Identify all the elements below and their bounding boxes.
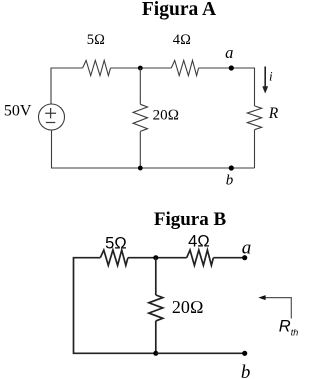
wire 5ohm to junction and to 4ohm bbox=[111, 67, 172, 69]
wire 20ohm bottom lead bbox=[139, 131, 141, 168]
wire 5ohm to junction to 4ohm bbox=[128, 257, 187, 259]
node junction dot top Figura B bbox=[153, 255, 158, 260]
resistor 20ohm Figura B bbox=[149, 295, 163, 321]
svg-text:b: b bbox=[226, 172, 234, 188]
svg-text:20Ω: 20Ω bbox=[172, 297, 204, 317]
wire R bottom lead bbox=[254, 130, 256, 168]
node junction dot bottom of 20ohm bbox=[138, 166, 143, 171]
resistor 4ohm Figura B bbox=[187, 250, 214, 265]
node junction dot bottom Figura B bbox=[153, 351, 158, 356]
svg-text:50V: 50V bbox=[4, 103, 32, 120]
svg-text:a: a bbox=[242, 238, 252, 259]
Rth arrow bbox=[265, 298, 292, 319]
wire top-left: source top to 5-ohm resistor bbox=[51, 68, 83, 104]
svg-text:R: R bbox=[268, 105, 279, 122]
voltage source 50V bbox=[39, 104, 65, 130]
wire left loop Figura B bbox=[74, 258, 156, 354]
svg-text:i: i bbox=[269, 68, 273, 83]
svg-text:5Ω: 5Ω bbox=[105, 235, 127, 253]
wire bottom to terminal b Figura B bbox=[156, 352, 245, 354]
terminal a Figura B bbox=[242, 255, 247, 260]
svg-text:a: a bbox=[225, 43, 233, 62]
resistor 5ohm Figura B bbox=[100, 250, 128, 265]
svg-text:20Ω: 20Ω bbox=[153, 108, 180, 124]
wire 4ohm to node a to top-right corner bbox=[199, 68, 255, 106]
svg-text:4Ω: 4Ω bbox=[173, 32, 191, 48]
node b Figura A bbox=[229, 165, 234, 170]
svg-text:Figura A: Figura A bbox=[142, 0, 216, 20]
resistor R Figura A bbox=[247, 106, 261, 130]
node a Figura A bbox=[229, 65, 234, 70]
svg-text:Rth: Rth bbox=[279, 317, 298, 337]
svg-text:5Ω: 5Ω bbox=[87, 32, 105, 48]
wire 20ohm top lead bbox=[139, 68, 141, 104]
current arrow i bbox=[263, 67, 268, 94]
wire bottom: middle junction to node b to bottom-right corner bbox=[140, 167, 254, 169]
wire 4ohm to terminal a bbox=[213, 257, 244, 259]
wire source bottom to bottom-left corner bbox=[52, 130, 141, 168]
resistor 4ohm Figura A bbox=[171, 60, 198, 75]
svg-text:4Ω: 4Ω bbox=[188, 232, 210, 250]
svg-text:b: b bbox=[241, 362, 251, 379]
wire 20ohm bottom lead Figura B bbox=[155, 321, 157, 353]
terminal b Figura B bbox=[242, 351, 247, 356]
node junction dot top of 20ohm bbox=[138, 66, 143, 71]
svg-text:Figura B: Figura B bbox=[154, 209, 227, 230]
wire 20ohm top lead Figura B bbox=[155, 258, 157, 295]
resistor 20ohm Figura A bbox=[133, 104, 147, 131]
resistor 5ohm Figura A bbox=[83, 60, 111, 75]
